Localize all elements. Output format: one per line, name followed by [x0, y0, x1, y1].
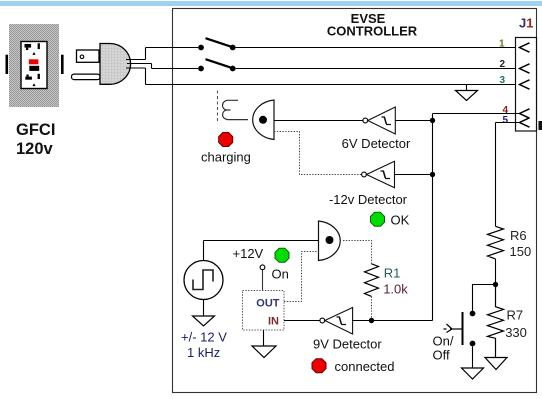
GFCI right screw	[61, 55, 64, 74]
svg-text:6V Detector: 6V Detector	[342, 136, 411, 151]
vertical bus from pin4	[432, 114, 434, 321]
svg-text:9V Detector: 9V Detector	[313, 337, 382, 352]
schematic frame	[173, 9, 537, 393]
svg-text:-12v Detector: -12v Detector	[329, 192, 408, 207]
svg-text:+/- 12 V: +/- 12 V	[181, 330, 227, 345]
svg-text:J1: J1	[519, 16, 533, 31]
svg-text:150: 150	[510, 244, 532, 259]
connected LED	[312, 359, 326, 373]
wire row3	[146, 84, 521, 86]
wire: relay K2 output to R1 (dashed)	[343, 241, 372, 264]
GFCI reset button (red)	[29, 59, 39, 64]
svg-text:3: 3	[500, 75, 506, 86]
svg-text:1: 1	[499, 39, 505, 50]
square wave source V1	[184, 261, 223, 300]
ground under source	[193, 316, 215, 326]
wire pin5	[496, 122, 521, 124]
svg-text:On: On	[272, 267, 289, 282]
wire pin4	[433, 113, 521, 115]
junction: 6V detector / bus	[430, 118, 435, 123]
wire row1 left	[146, 47, 199, 49]
svg-text:1.0k: 1.0k	[383, 282, 408, 297]
wire: 9V detector to bus	[353, 320, 433, 322]
On LED	[275, 248, 289, 262]
GFCI bottom triangle	[32, 83, 35, 86]
svg-text:connected: connected	[335, 359, 395, 374]
GFCI middle triangle	[32, 52, 35, 55]
plug upper blade	[77, 50, 100, 62]
ground on row3	[456, 85, 478, 101]
R6 branch from pin5	[495, 123, 497, 227]
svg-text:GFCI: GFCI	[16, 121, 55, 139]
GFCI face plate	[21, 42, 47, 89]
ground under box	[263, 330, 265, 346]
cropped mark at right edge	[539, 121, 542, 130]
resistor R6	[488, 226, 504, 259]
wire: source to relay K2 input	[204, 240, 319, 242]
wire: IN pin to 9V detector	[284, 320, 320, 322]
wire: OUT to relay K2 (dashed)	[284, 252, 319, 302]
pushbutton On/Off	[444, 311, 476, 347]
relay K2 body	[319, 221, 341, 261]
ground under pushbutton	[462, 368, 484, 379]
-12v detector inverter	[362, 161, 395, 188]
resistor R7	[488, 285, 504, 358]
GFCI bottom-right slot	[38, 74, 40, 79]
svg-text:330: 330	[505, 325, 527, 340]
wire: plug to row2	[151, 64, 153, 69]
OUT/IN box U2	[243, 291, 285, 331]
wire: relay K1 lower output (dashed)	[274, 132, 362, 175]
GFCI outlet body	[6, 24, 64, 107]
svg-text:R1: R1	[384, 265, 401, 280]
switch SW1	[198, 38, 236, 50]
relay K1 body	[253, 100, 274, 140]
connector J1 box	[516, 38, 537, 132]
pin 5 arrow	[520, 118, 530, 127]
svg-text:R7: R7	[507, 308, 524, 323]
svg-text:120v: 120v	[16, 140, 54, 158]
svg-text:1 kHz: 1 kHz	[187, 345, 220, 360]
resistor R1	[365, 264, 379, 297]
branch to pushbutton	[473, 285, 496, 311]
OK LED	[371, 212, 385, 226]
plug cord stubs	[126, 60, 152, 69]
wire row2 left	[152, 68, 199, 70]
pin 4 arrow	[520, 109, 530, 118]
wire: plug to row3	[145, 68, 147, 85]
svg-text:On/: On/	[433, 334, 454, 349]
wire: 6V detector input to bus	[395, 120, 432, 122]
pin 2 arrow	[520, 64, 530, 73]
wire row1 right	[236, 47, 520, 49]
relay K1 dashed link	[217, 91, 219, 122]
svg-text:OK: OK	[391, 212, 410, 227]
svg-text:OUT: OUT	[256, 297, 280, 309]
GFCI top-left slot	[25, 44, 32, 48]
switch SW2	[198, 59, 236, 71]
wire: -12v detector input to bus	[395, 174, 433, 176]
pin 3 arrow	[520, 80, 530, 89]
6V detector inverter	[363, 107, 395, 134]
svg-text:CONTROLLER: CONTROLLER	[327, 24, 418, 39]
plug body	[100, 44, 131, 85]
ground under R7	[485, 358, 507, 370]
wire: source top lead	[203, 241, 205, 261]
GFCI test button (black)	[29, 66, 39, 71]
9V detector inverter	[320, 308, 353, 335]
junction: R6/R7/pushbutton node	[493, 282, 498, 287]
plug lower blade	[72, 74, 101, 80]
wire: source bottom lead	[203, 300, 205, 317]
charging LED	[219, 133, 233, 147]
svg-text:Off: Off	[433, 348, 450, 363]
svg-text:5: 5	[503, 115, 509, 126]
relay K1 coil	[222, 100, 248, 119]
svg-text:+12V: +12V	[233, 246, 264, 261]
wire: relay K1 to 6V detector	[274, 120, 363, 122]
top blue bar	[0, 1, 542, 6]
+12V supply	[260, 265, 265, 270]
svg-text:IN: IN	[268, 316, 279, 328]
GFCI top-right slot	[38, 43, 40, 49]
svg-text:2: 2	[500, 59, 506, 70]
svg-text:R6: R6	[510, 228, 527, 243]
junction: R1 / 9V detector line	[369, 318, 374, 323]
pin 1 arrow	[520, 43, 530, 52]
wire: plug to row1	[145, 48, 147, 60]
GFCI left screw	[6, 55, 9, 74]
junction: -12v detector / bus	[430, 172, 435, 177]
GFCI bottom-left slot	[26, 75, 28, 77]
svg-text:charging: charging	[201, 150, 251, 165]
wire row2 right	[236, 68, 520, 70]
